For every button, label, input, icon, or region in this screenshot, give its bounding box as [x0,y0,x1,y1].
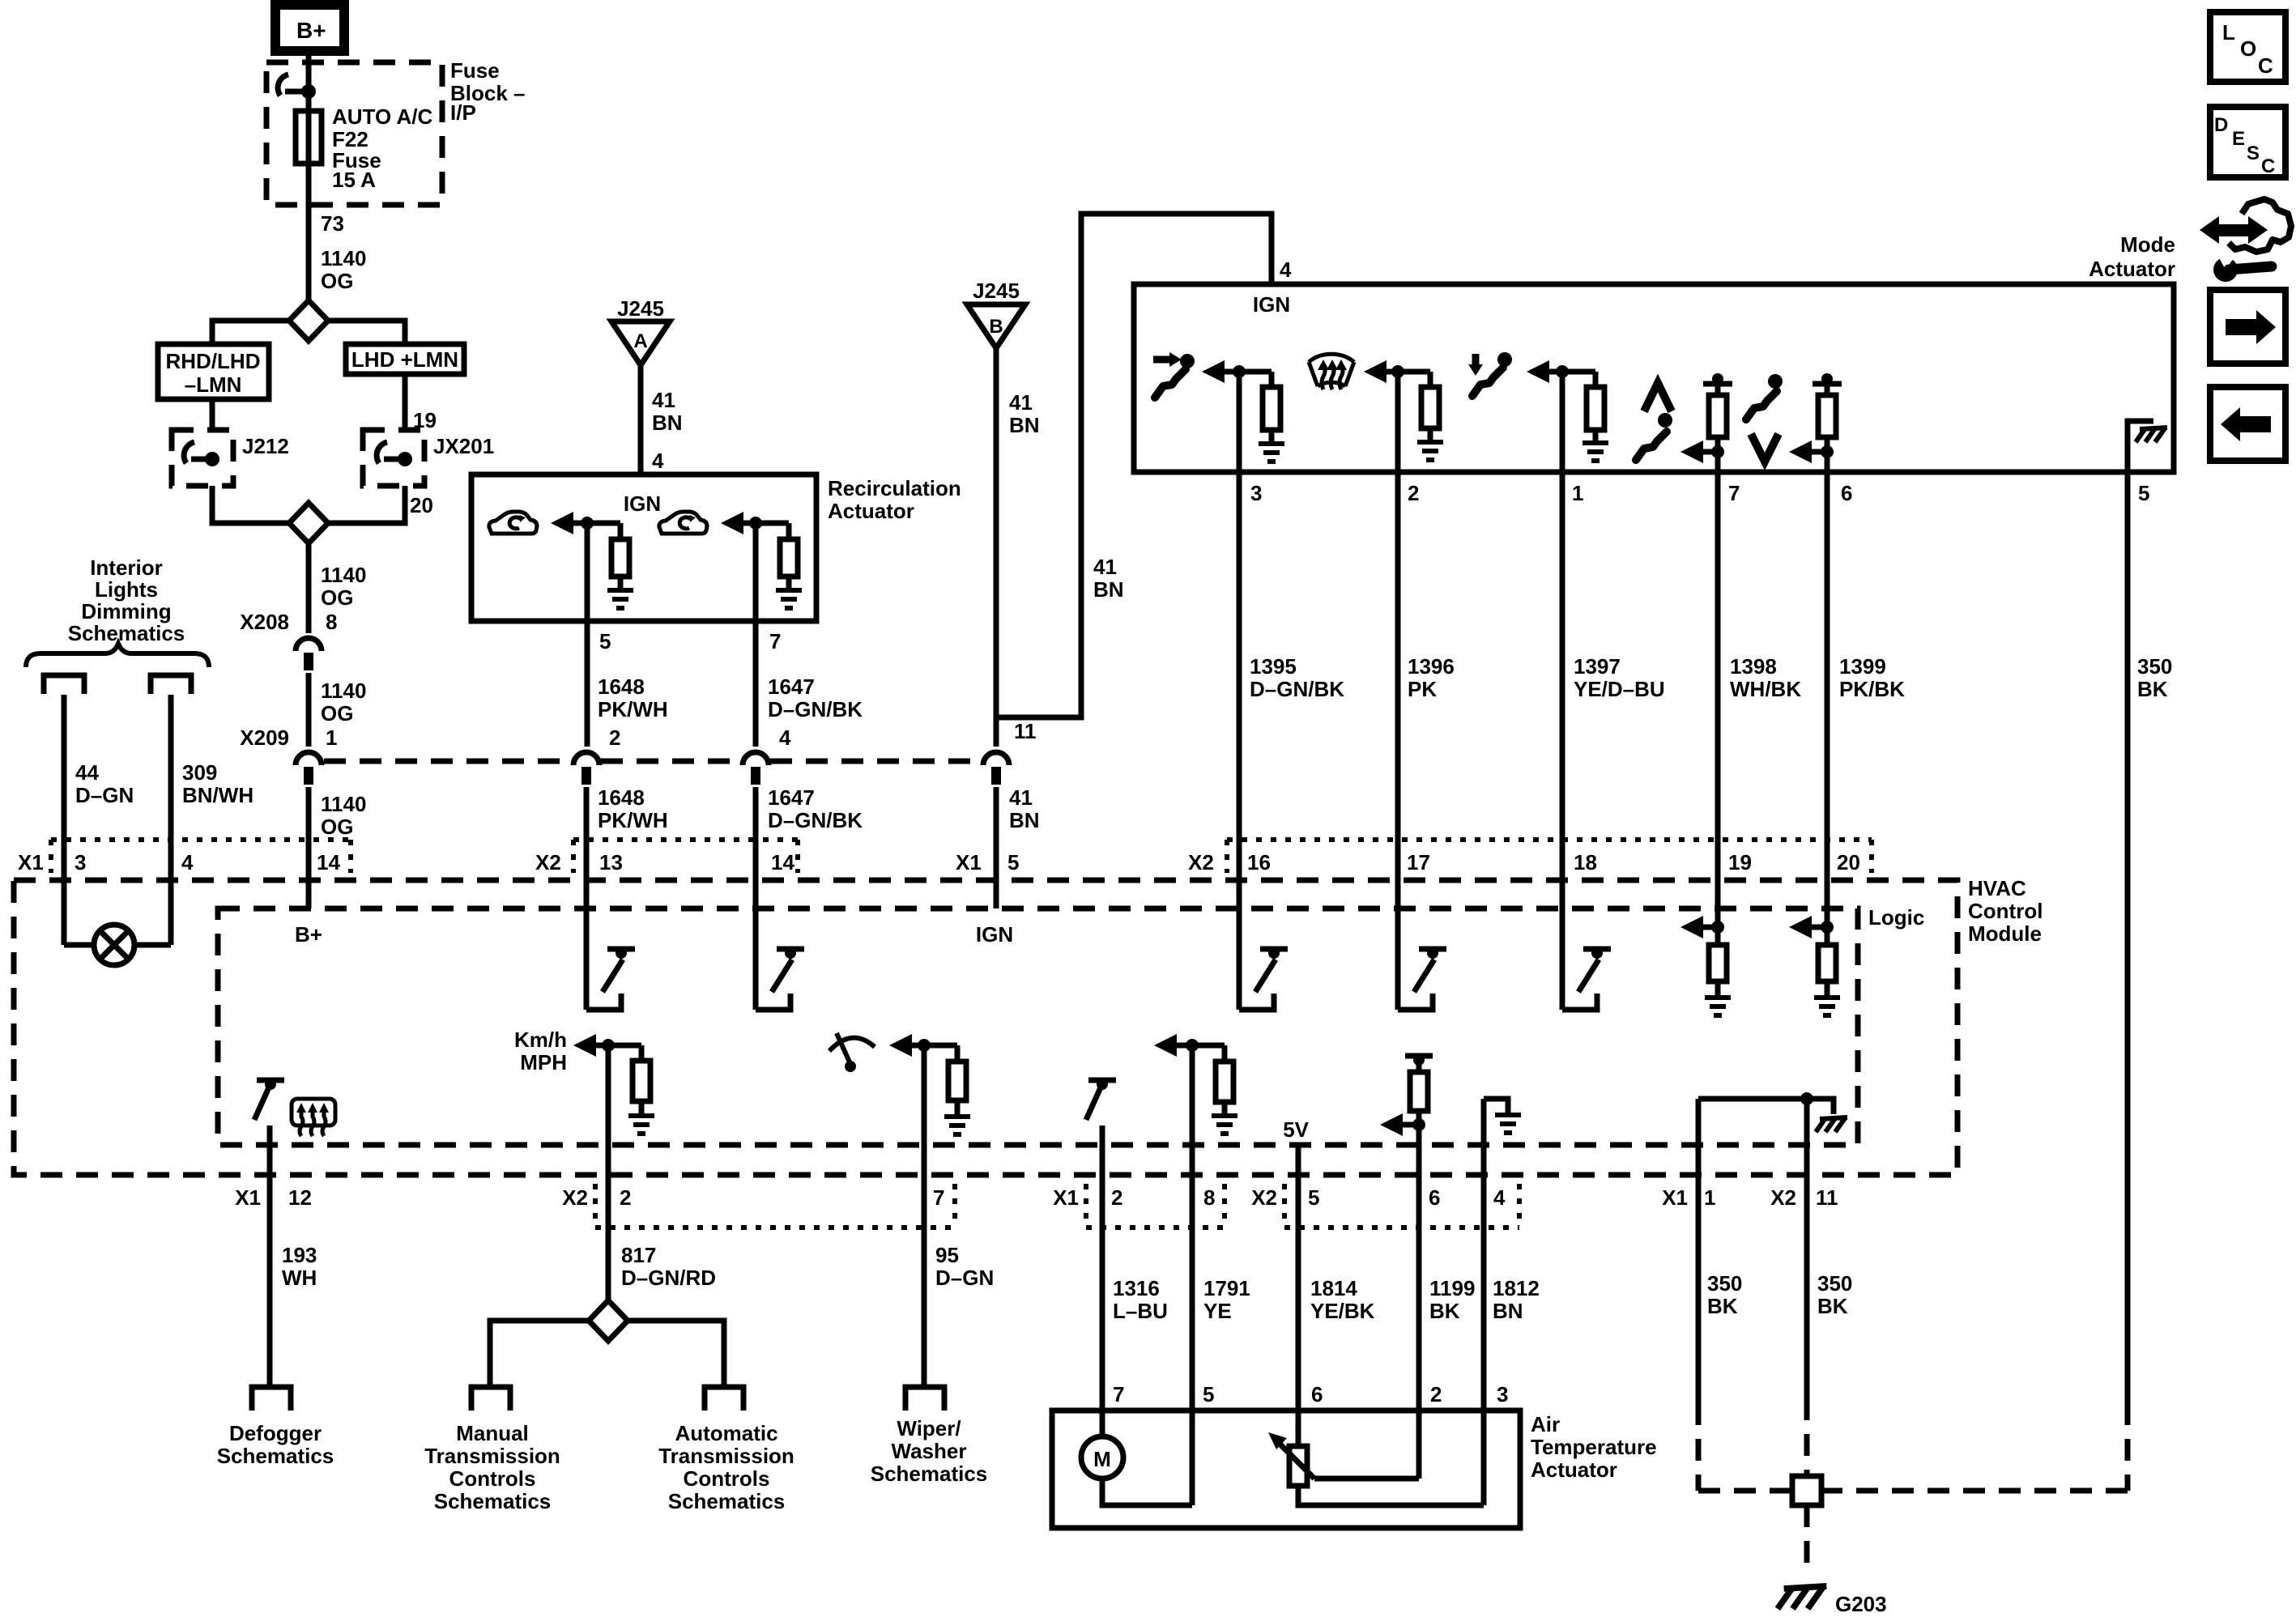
svg-text:1199: 1199 [1429,1276,1475,1300]
svg-text:Automatic: Automatic [675,1421,777,1445]
svg-text:Fuse: Fuse [450,58,500,83]
wire 1647 to HVAC X2-14 [753,787,759,1010]
svg-text:19: 19 [1728,850,1752,874]
svg-text:7: 7 [933,1185,944,1210]
svg-text:Actuator: Actuator [1531,1457,1617,1482]
Logic inner dashed box [218,908,1858,1145]
LHD +LMN option box [346,344,464,374]
svg-text:BN: BN [1009,808,1040,832]
off-page bracket circuit 44 [44,675,84,694]
svg-text:BK: BK [1707,1294,1738,1318]
svg-text:Module: Module [1968,921,2042,946]
svg-text:J245: J245 [973,279,1020,303]
svg-text:YE: YE [1203,1299,1232,1323]
svg-text:5: 5 [1007,850,1019,874]
svg-text:11: 11 [1014,719,1037,743]
svg-text:X1: X1 [1662,1185,1688,1210]
svg-text:Schematics: Schematics [668,1489,786,1513]
resistor mode 4 with supply bar [1712,373,1723,385]
logic output 1791: arrow, resistor, ground [1154,1034,1177,1057]
svg-text:Controls: Controls [449,1466,536,1491]
wire 350 BK from HVAC X2-11 [1804,1099,1810,1398]
resistor mode 3 [1593,372,1599,387]
wire mode pin 6 circuit 1399 [1825,452,1830,927]
svg-text:4: 4 [652,449,664,473]
svg-text:1647: 1647 [768,785,815,810]
mode icon 1 (vent to face) [1153,352,1195,398]
svg-text:1791: 1791 [1203,1276,1250,1300]
wire 817 D-GN/RD from HVAC X2-2 [606,1045,611,1301]
wire pot low side to pin 3 [1298,1486,1484,1505]
wire 1140 OG X209 to HVAC pin 14 [306,787,312,908]
wire mode pin 7 circuit 1398 [1715,452,1721,927]
wire mode pin 1 circuit 1397 [1560,372,1565,1010]
splice diamond 817 [589,1300,628,1341]
Air Temperature Actuator box [1052,1411,1520,1528]
svg-text:YE/BK: YE/BK [1310,1299,1375,1323]
svg-text:1648: 1648 [598,674,645,699]
svg-text:20: 20 [1837,850,1860,874]
logic driver switch (mode 1395) [1239,994,1274,1010]
wire 41 BN to HVAC X1-5 [994,787,999,908]
arrow to mode icon 4 [1680,440,1703,463]
svg-text:1398: 1398 [1730,654,1777,679]
wire 41 BN from J245 B [994,348,999,747]
HVAC connector row X2 group (pins 16-20) [1227,837,1872,842]
svg-text:73: 73 [321,211,344,236]
svg-text:L: L [2222,20,2235,45]
svg-text:8: 8 [326,610,337,634]
wire to backlight lamp [64,943,94,948]
wire B+ to fuse [306,51,312,111]
svg-text:3: 3 [1250,481,1262,505]
mode icon 5 (seat down) [1768,374,1783,389]
svg-text:E: E [2232,128,2245,150]
wire 350 BK from HVAC X1-1 [1696,1099,1702,1403]
brace [26,644,209,667]
svg-text:5: 5 [1308,1185,1319,1210]
legend box arrow right [2210,290,2285,364]
wire 41 BN to recirculation actuator pin 4 [638,365,644,474]
svg-text:15 A: 15 A [332,168,376,192]
RHD/LHD -LMN option box [158,344,269,399]
svg-text:17: 17 [1407,850,1430,874]
wire 1648 to HVAC X2-13 [584,787,590,1010]
resistor mode 2 [1428,372,1433,387]
svg-text:BN: BN [1093,577,1124,602]
svg-text:1396: 1396 [1408,654,1455,679]
svg-text:Schematics: Schematics [871,1462,988,1486]
svg-text:S: S [2247,143,2260,164]
svg-text:1140: 1140 [321,679,366,703]
svg-text:12: 12 [288,1185,312,1210]
svg-text:3: 3 [1497,1382,1508,1406]
svg-text:14: 14 [317,850,340,874]
ground splice junction block [1792,1476,1821,1505]
mode icon 3 (vent to floor) [1468,352,1512,396]
svg-text:16: 16 [1247,850,1271,874]
svg-text:Logic: Logic [1868,905,1924,930]
wire 1316 L-BU from HVAC X1-2 to air temp motor [1100,1126,1105,1438]
svg-text:OG: OG [321,815,353,839]
svg-text:Mode: Mode [2120,232,2175,257]
air temp motor M [1081,1436,1123,1479]
wire 1140 OG X208 to X209 [306,673,312,747]
svg-text:IGN: IGN [976,922,1013,947]
wire JX201 to splice diamond S2, circuit 20 [328,486,405,523]
svg-text:1140: 1140 [321,563,366,587]
svg-text:BN/WH: BN/WH [182,783,253,807]
svg-text:4: 4 [1280,257,1292,282]
svg-text:1647: 1647 [768,674,815,699]
off-page bracket circuit 309 [151,675,191,694]
svg-text:D: D [2214,114,2228,136]
svg-text:Schematics: Schematics [434,1489,552,1513]
svg-text:Actuator: Actuator [2089,257,2175,281]
fuse F22 AUTO A/C 15A [306,111,312,164]
wire 1812 BN from HVAC X2-4 [1481,1099,1487,1505]
svg-text:2: 2 [1430,1382,1442,1406]
legend box DESC [2210,107,2285,177]
J212 splice pack dashed box [172,430,233,486]
svg-text:X209: X209 [240,726,289,750]
X209 harness dashed tie line [324,759,572,764]
off-page bracket manual transmission [471,1387,510,1411]
logic defogger switch [257,1078,284,1083]
svg-text:193: 193 [282,1243,317,1267]
svg-text:D–GN: D–GN [935,1266,994,1290]
logic driver switch (recirc 1647) [756,994,790,1010]
svg-text:PK: PK [1408,677,1437,701]
logic output wiper: icon, arrow, resistor, ground [829,1033,875,1064]
svg-text:D–GN/BK: D–GN/BK [768,697,863,721]
svg-text:G203: G203 [1835,1592,1887,1616]
logic input 1398: arrow, resistor, ground [1680,916,1703,938]
wire motor to pin 5 [1102,1479,1192,1505]
svg-text:817: 817 [621,1243,656,1267]
logic driver switch (recirc 1648) [586,994,621,1010]
svg-text:5: 5 [2138,481,2149,505]
svg-text:BK: BK [1429,1299,1460,1323]
arrow to mode icon 5 [1789,440,1812,463]
heated rear window icon [292,1099,335,1136]
svg-text:3: 3 [75,850,86,874]
svg-text:Manual: Manual [456,1421,529,1445]
svg-text:X2: X2 [562,1185,588,1210]
connector terminal JX201 [377,442,412,466]
svg-text:Washer: Washer [892,1439,967,1463]
svg-text:Recirculation: Recirculation [828,476,961,500]
svg-text:5V: 5V [1283,1117,1309,1142]
arrow into recirc icon 1 [551,512,573,534]
svg-text:20: 20 [410,493,433,517]
wire 41 BN branch to mode actuator [996,214,1272,717]
svg-text:C: C [2261,155,2275,177]
svg-text:O: O [2240,36,2256,61]
connector terminal J212 [184,442,219,466]
svg-text:Control: Control [1968,899,2043,923]
off-page bracket automatic transmission [705,1387,743,1411]
svg-text:BN: BN [652,411,683,435]
svg-text:1: 1 [326,726,337,750]
svg-text:1812: 1812 [1493,1276,1540,1300]
mode icon 2 (defrost) [1309,354,1354,389]
svg-text:YE/D–BU: YE/D–BU [1574,677,1665,701]
svg-text:6: 6 [1311,1382,1323,1406]
svg-text:RHD/LHD: RHD/LHD [166,349,261,373]
arrow to mode icon 3 [1527,360,1549,383]
svg-text:WH: WH [282,1266,317,1290]
wire mode pin 2 circuit 1396 [1395,372,1401,1010]
svg-text:1399: 1399 [1839,654,1886,679]
wire 1140 OG splice to X208 [306,543,312,633]
junction dot mode 4 [1711,445,1724,458]
off-page bracket wiper/washer [905,1387,944,1411]
svg-text:7: 7 [1113,1382,1124,1406]
recirc position icon 2 (car fresh air) [659,512,707,534]
svg-text:LHD +LMN: LHD +LMN [351,347,458,372]
svg-text:309: 309 [182,760,217,785]
svg-text:41: 41 [1009,785,1033,810]
svg-text:44: 44 [75,760,99,785]
svg-text:D–GN/BK: D–GN/BK [768,808,863,832]
svg-text:D–GN/BK: D–GN/BK [1250,677,1344,701]
svg-text:MPH: MPH [520,1050,567,1074]
junction dot mode 3 [1556,365,1569,378]
svg-text:Air: Air [1531,1412,1560,1436]
logic internal ground for 1812 [1484,1099,1508,1113]
svg-text:Dimming: Dimming [81,599,171,623]
svg-text:Actuator: Actuator [828,499,914,523]
svg-text:–LMN: –LMN [185,372,242,397]
svg-text:41: 41 [1093,555,1117,579]
connector group ticks X2 (2,7) [593,1184,598,1228]
HVAC connector row X1 group (pins 3,4,14) [51,837,351,842]
ground mode 2 [1417,442,1443,460]
off-schematic dashed ground runs to G203 [1696,1403,1702,1491]
HVAC internal ground bus [1698,1096,1807,1102]
wire to automatic transmission [628,1321,724,1387]
svg-text:D–GN: D–GN [75,783,134,807]
svg-text:D–GN/RD: D–GN/RD [621,1266,716,1290]
svg-text:B+: B+ [295,922,322,947]
svg-text:BN: BN [1009,413,1040,437]
junction dot mode 1 [1233,365,1246,378]
svg-text:14: 14 [771,850,794,874]
logic input 1199: supply resistor and arrow [1405,1053,1433,1059]
B+ battery feed box [275,5,344,51]
splice diamond S2 [289,503,328,543]
svg-text:Km/h: Km/h [514,1028,567,1052]
wire lamp to pin 4 [134,943,171,948]
svg-text:Schematics: Schematics [68,621,185,645]
svg-text:1140: 1140 [321,246,366,270]
svg-text:7: 7 [1728,481,1740,505]
svg-text:8: 8 [1203,1185,1215,1210]
svg-text:2: 2 [1111,1185,1122,1210]
svg-text:PK/WH: PK/WH [598,697,668,721]
svg-text:WH/BK: WH/BK [1730,677,1801,701]
svg-text:X2: X2 [1188,850,1214,874]
junction dot mode 5 [1821,445,1834,458]
svg-text:350: 350 [2137,654,2172,679]
wire 1791 YE from HVAC X1-8 [1190,1045,1195,1505]
legend box LOC [2210,12,2285,82]
wire LHD box to JX201, circuit 19 [403,374,408,430]
svg-text:6: 6 [1429,1185,1440,1210]
air temp position potentiometer [1289,1446,1307,1486]
svg-text:11: 11 [1816,1185,1838,1210]
svg-text:1395: 1395 [1250,654,1297,679]
svg-text:1140: 1140 [321,792,366,816]
svg-text:1648: 1648 [598,785,645,810]
svg-text:AUTO A/C: AUTO A/C [332,104,432,129]
wire splice to RHD/LHD box [212,321,289,344]
svg-text:Transmission: Transmission [424,1444,560,1468]
svg-text:1316: 1316 [1113,1276,1160,1300]
HVAC connector row X2 group (pins 13,14) [573,837,798,842]
resistor (recirc coil 1) [618,523,624,539]
ground (recirc 1) [607,590,633,608]
wire 309 BN/WH [168,695,174,945]
svg-text:350: 350 [1817,1271,1852,1296]
svg-text:X1: X1 [956,850,982,874]
wire recirc pin 7, circuit 1647 [753,523,759,747]
wire 95 D-GN from HVAC pin 7 [922,1045,927,1387]
wire mode pin 3 circuit 1395 [1237,372,1242,1010]
svg-text:4: 4 [1493,1185,1506,1210]
HVAC Control Module outer dashed box [14,880,1957,1175]
legend box arrow left [2210,387,2285,461]
svg-text:41: 41 [652,388,675,412]
svg-text:Temperature: Temperature [1531,1435,1657,1459]
mode actuator internal ground [2128,421,2153,472]
arrow into recirc icon 2 [721,512,743,534]
svg-text:X1: X1 [235,1185,261,1210]
wiper tap to pin 2 [1314,1476,1419,1482]
svg-text:Schematics: Schematics [217,1444,334,1468]
mode icon 4 (seat up) [1644,383,1672,411]
svg-text:C: C [2258,53,2273,78]
svg-text:6: 6 [1841,481,1852,505]
svg-text:L–BU: L–BU [1113,1299,1168,1323]
splice diamond S1 [289,300,328,341]
svg-text:IGN: IGN [624,491,661,516]
svg-text:4: 4 [181,850,194,874]
fuse block I/P dashed box [266,62,442,205]
connector terminal in fuse block [278,74,316,99]
svg-text:2: 2 [620,1185,631,1210]
resistor mode 1 [1269,372,1275,387]
svg-text:JX201: JX201 [433,434,494,458]
junction dot pin7 branch [749,517,762,530]
svg-text:M: M [1093,1447,1111,1471]
backlight lamp [94,925,134,965]
svg-text:4: 4 [779,726,791,750]
svg-text:X208: X208 [240,610,289,634]
svg-text:Wiper/: Wiper/ [897,1416,961,1440]
svg-text:PK/BK: PK/BK [1839,677,1905,701]
svg-text:13: 13 [599,850,623,874]
svg-text:HVAC: HVAC [1968,876,2026,900]
junction dot mode 2 [1391,365,1404,378]
svg-text:IGN: IGN [1253,292,1290,317]
logic input 1399: arrow, resistor, ground [1789,916,1812,938]
svg-text:A: A [633,330,647,352]
svg-text:350: 350 [1707,1271,1742,1296]
svg-text:Controls: Controls [684,1466,770,1491]
connector group ticks X1 (2,8) [1084,1184,1088,1228]
wire 44 D-GN [62,695,67,945]
wire RHD box to J212 [210,399,215,430]
connector group ticks X2 (5,6,4) [1282,1184,1287,1228]
Recirculation Actuator box [471,474,816,621]
svg-text:Lights: Lights [95,577,158,602]
logic driver switch (mode 1397) [1562,994,1597,1010]
svg-text:J245: J245 [617,296,664,321]
wire 193 WH from HVAC X1-12 [267,1126,273,1387]
svg-text:BK: BK [2137,677,2168,701]
legend icon repair (arrows and wrench) [2200,199,2291,282]
JX201 splice pack dashed box [363,430,424,486]
svg-text:X1: X1 [1053,1185,1079,1210]
resistor (recirc coil 2) [786,523,792,539]
svg-text:5: 5 [599,629,611,653]
svg-text:I/P: I/P [450,100,476,125]
svg-text:OG: OG [321,701,353,726]
svg-text:1: 1 [1572,481,1583,505]
svg-text:BN: BN [1493,1299,1523,1323]
svg-text:OG: OG [321,269,353,293]
svg-text:Interior: Interior [90,555,163,580]
svg-text:X2: X2 [1770,1185,1796,1210]
wire mode pin 5 circuit 350 BK [2125,472,2131,1403]
arrow to mode icon 1 [1202,360,1225,383]
svg-text:BK: BK [1817,1294,1848,1318]
svg-text:B: B [989,316,1003,338]
svg-text:95: 95 [935,1243,959,1267]
svg-text:2: 2 [1408,481,1419,505]
logic switch 1316 [1088,1078,1116,1083]
Mode Actuator box [1134,284,2174,472]
resistor mode 5 with supply bar [1821,373,1833,385]
arrow to mode icon 2 [1364,360,1387,383]
svg-text:X1: X1 [18,850,44,874]
svg-text:1397: 1397 [1574,654,1621,679]
wire 73 / 1140 OG from fuse to splice [306,164,312,301]
svg-text:X2: X2 [1251,1185,1277,1210]
ground G203 [1778,1586,1826,1609]
off-page bracket 193 [252,1387,291,1411]
wire splice to LHD +LMN box [328,321,405,344]
svg-text:J212: J212 [242,434,289,458]
svg-text:X2: X2 [535,850,561,874]
svg-text:5: 5 [1203,1382,1214,1406]
svg-text:1814: 1814 [1310,1276,1357,1300]
svg-text:Transmission: Transmission [658,1444,794,1468]
svg-text:OG: OG [321,585,353,610]
ground (recirc 2) [776,590,802,608]
svg-text:PK/WH: PK/WH [598,808,668,832]
wire recirc pin 5, circuit 1648 [585,523,590,747]
wire to manual transmission [490,1321,589,1387]
svg-text:7: 7 [769,629,781,653]
svg-text:18: 18 [1574,850,1597,874]
svg-text:1: 1 [1704,1185,1715,1210]
ground mode 3 [1582,443,1608,461]
recirc position icon 1 (car recirculation) [489,512,537,534]
svg-text:41: 41 [1009,390,1033,415]
